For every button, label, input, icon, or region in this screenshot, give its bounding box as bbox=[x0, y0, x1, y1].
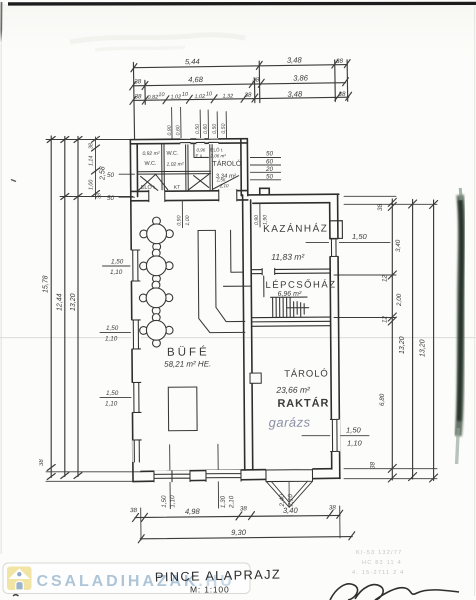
svg-text:38: 38 bbox=[39, 459, 45, 466]
left dim line 12,44 bbox=[64, 137, 66, 477]
svg-text:TÁROLÓ: TÁROLÓ bbox=[284, 368, 329, 379]
svg-text:3,34 m²: 3,34 m² bbox=[216, 174, 237, 180]
wall openings (white) bbox=[129, 137, 340, 483]
svg-text:4,68: 4,68 bbox=[188, 75, 204, 84]
svg-text:12: 12 bbox=[382, 315, 389, 323]
garage opening bbox=[266, 468, 313, 482]
left margin speck bbox=[11, 180, 16, 182]
svg-text:12: 12 bbox=[382, 274, 389, 282]
svg-text:1,10: 1,10 bbox=[110, 269, 123, 276]
svg-text:1,50: 1,50 bbox=[346, 426, 362, 435]
svg-text:38: 38 bbox=[338, 91, 346, 98]
svg-text:1,02 m²: 1,02 m² bbox=[167, 162, 184, 168]
svg-text:38: 38 bbox=[370, 461, 377, 469]
dim ticks row2 bbox=[130, 78, 349, 90]
svg-text:6,96 m²: 6,96 m² bbox=[278, 291, 302, 298]
door gaps block bottom wall bbox=[149, 190, 165, 202]
svg-text:38: 38 bbox=[240, 505, 248, 512]
bottom 9,30 ticks bbox=[138, 532, 355, 543]
svg-text:3,48: 3,48 bbox=[287, 55, 303, 64]
bottom dim ticks bbox=[132, 510, 342, 521]
svg-text:0,90: 0,90 bbox=[167, 125, 173, 135]
table 1 bbox=[140, 217, 174, 251]
left dim ticks bbox=[47, 136, 99, 479]
dim labels row1 bbox=[185, 55, 344, 67]
svg-text:1,50: 1,50 bbox=[161, 495, 168, 508]
svg-text:1,14: 1,14 bbox=[89, 156, 95, 166]
stamp text bottom right bbox=[352, 550, 404, 576]
faint pencil smudges top bbox=[70, 35, 245, 42]
logo house window dot bbox=[17, 572, 21, 576]
svg-text:38: 38 bbox=[134, 78, 142, 85]
svg-text:13,20: 13,20 bbox=[70, 293, 77, 311]
pillar on middle wall bbox=[250, 373, 261, 383]
svg-text:RAKTÁR: RAKTÁR bbox=[277, 396, 329, 409]
svg-text:1,00: 1,00 bbox=[89, 180, 95, 190]
svg-text:0,50: 0,50 bbox=[221, 123, 227, 133]
svg-text:ELŐ t.: ELŐ t. bbox=[210, 146, 223, 152]
svg-text:50: 50 bbox=[266, 173, 274, 180]
vent dim verticals bbox=[172, 107, 227, 139]
dim ticks row3 bbox=[130, 92, 352, 104]
right dim ticks bbox=[388, 198, 437, 482]
svg-text:KI-53 132/77: KI-53 132/77 bbox=[356, 550, 402, 556]
garage opening edges bbox=[266, 469, 313, 482]
left page edge faint bbox=[1, 44, 2, 554]
block bottom wall bbox=[131, 191, 248, 201]
svg-text:3,40: 3,40 bbox=[395, 239, 402, 252]
svg-text:0,50: 0,50 bbox=[212, 124, 218, 134]
svg-text:1,32: 1,32 bbox=[222, 94, 233, 100]
bottom rotated labels bbox=[161, 494, 295, 510]
svg-text:1,02: 1,02 bbox=[194, 94, 205, 100]
dim labels row3 bbox=[134, 89, 346, 101]
bottom dim row bbox=[135, 515, 340, 517]
door jambs bbox=[149, 189, 275, 275]
svg-text:0,82: 0,82 bbox=[147, 95, 158, 101]
left outer wall bbox=[130, 140, 133, 482]
window thin lines bbox=[130, 138, 339, 483]
svg-text:3,40: 3,40 bbox=[283, 506, 299, 515]
svg-text:15,78: 15,78 bbox=[43, 275, 50, 293]
corridor nook lines bbox=[231, 230, 244, 272]
bottom outer wall bbox=[133, 469, 340, 482]
svg-text:1,50: 1,50 bbox=[352, 232, 368, 241]
kazanhaz bottom wall bbox=[251, 269, 330, 274]
logo house roof bbox=[9, 569, 31, 580]
svg-text:HC 83 11 4: HC 83 11 4 bbox=[362, 560, 402, 566]
svg-text:10: 10 bbox=[182, 92, 189, 98]
kaz door gap bbox=[262, 268, 275, 274]
svg-text:W.C.: W.C. bbox=[145, 161, 157, 167]
bottom 9,30 row bbox=[140, 537, 352, 539]
left inner wall upper bbox=[136, 144, 138, 197]
büfé counter rect bottom-left bbox=[168, 387, 197, 431]
svg-text:38: 38 bbox=[244, 92, 252, 99]
vent gap thin lines bbox=[180, 139, 218, 142]
fold crease line bbox=[0, 337, 476, 338]
svg-text:1,30: 1,30 bbox=[220, 495, 227, 508]
svg-text:TÁROLÓ: TÁROLÓ bbox=[212, 159, 241, 168]
svg-text:0,96: 0,96 bbox=[196, 147, 205, 152]
left extension lines bbox=[46, 140, 141, 482]
handwritten title PINCE ALAPRAJZ bbox=[155, 566, 282, 594]
stair rails bbox=[271, 297, 309, 308]
svg-text:6,80: 6,80 bbox=[379, 393, 386, 406]
dim extension verticals top bbox=[133, 59, 348, 139]
stair door jamb bbox=[263, 276, 265, 297]
right wall windows bbox=[329, 239, 339, 257]
svg-text:3,86: 3,86 bbox=[293, 73, 309, 82]
bottom leader verticals bbox=[170, 444, 219, 509]
logo house door bbox=[16, 581, 23, 590]
bar counter top bbox=[198, 229, 215, 231]
right rotated labels bbox=[370, 203, 404, 469]
raktar 1,50 leader bbox=[302, 435, 369, 437]
svg-text:38: 38 bbox=[134, 93, 142, 100]
window dim labels left bbox=[105, 259, 124, 408]
svg-text:38: 38 bbox=[329, 504, 337, 511]
svg-text:4,98: 4,98 bbox=[185, 507, 201, 516]
left wall windows bbox=[130, 250, 140, 281]
right dim line segments bbox=[391, 199, 393, 480]
table 2 bbox=[140, 249, 174, 283]
bottom-left small mark bbox=[13, 595, 19, 596]
svg-text:23,66 m²: 23,66 m² bbox=[275, 385, 311, 395]
svg-text:11,83 m²: 11,83 m² bbox=[271, 252, 305, 262]
svg-text:38: 38 bbox=[130, 507, 138, 514]
block partitions vertical bbox=[162, 143, 213, 191]
svg-text:38: 38 bbox=[252, 77, 260, 84]
table 4 bbox=[140, 314, 174, 348]
right extension lines bbox=[334, 196, 437, 478]
svg-text:38: 38 bbox=[89, 143, 95, 149]
svg-text:W.C.: W.C. bbox=[166, 151, 178, 157]
door swing diagonals block bbox=[139, 174, 239, 191]
svg-text:10: 10 bbox=[206, 91, 213, 97]
taroló small room left wall pair bbox=[241, 139, 248, 196]
eü cubicle bbox=[194, 143, 209, 157]
garage door V marks bbox=[267, 481, 313, 507]
svg-text:2,06 m²: 2,06 m² bbox=[209, 153, 226, 158]
vent gaps top wall bbox=[180, 138, 190, 144]
svg-text:13,20: 13,20 bbox=[399, 336, 406, 354]
left rotated dim labels bbox=[39, 166, 107, 466]
chimney protrusion bbox=[330, 221, 343, 239]
right dim line 13,20 inner bbox=[412, 200, 414, 480]
svg-text:3,48: 3,48 bbox=[287, 89, 303, 98]
svg-text:10: 10 bbox=[158, 92, 165, 98]
svg-text:58,21 m² HE.: 58,21 m² HE. bbox=[164, 359, 211, 368]
left dim line 15,78 bbox=[50, 136, 52, 478]
svg-text:0,92 m²: 0,92 m² bbox=[142, 151, 159, 157]
svg-text:2,00: 2,00 bbox=[396, 293, 403, 307]
bottom row verticals bbox=[141, 506, 340, 540]
svg-text:0,60: 0,60 bbox=[175, 125, 181, 135]
svg-text:38: 38 bbox=[97, 193, 103, 199]
svg-text:50: 50 bbox=[107, 195, 115, 202]
svg-text:2,10: 2,10 bbox=[228, 495, 235, 509]
scan top border bbox=[8, 2, 476, 6]
svg-text:E.ü: E.ü bbox=[195, 153, 202, 158]
interior details bbox=[138, 143, 270, 431]
door dim leaders below block bbox=[182, 200, 260, 228]
watermark box bbox=[3, 563, 250, 594]
bottom wall windows bbox=[154, 470, 190, 482]
svg-text:1,50: 1,50 bbox=[111, 259, 124, 266]
svg-text:1,10: 1,10 bbox=[105, 336, 118, 343]
vent dim rotated labels bbox=[167, 123, 227, 135]
top-left block outer top wall bbox=[130, 139, 247, 144]
svg-text:1,10: 1,10 bbox=[347, 439, 363, 448]
svg-text:0,90: 0,90 bbox=[254, 215, 260, 225]
stairs bbox=[271, 297, 309, 317]
svg-text:ELŐ t.: ELŐ t. bbox=[141, 184, 157, 191]
svg-text:1,00: 1,00 bbox=[185, 215, 191, 225]
wc bottom partition bbox=[137, 171, 210, 174]
svg-text:1,50: 1,50 bbox=[106, 325, 119, 332]
svg-text:0,90: 0,90 bbox=[176, 215, 182, 225]
svg-text:M: 1:100: M: 1:100 bbox=[190, 585, 229, 595]
bar counter inner bbox=[215, 230, 244, 322]
svg-text:2,10: 2,10 bbox=[219, 183, 229, 188]
table 3 bbox=[139, 281, 173, 315]
svg-text:9,30: 9,30 bbox=[231, 528, 247, 537]
half wall stub bbox=[223, 285, 251, 287]
svg-text:LÉPCSŐHÁZ: LÉPCSŐHÁZ bbox=[265, 279, 336, 291]
svg-text:0,60: 0,60 bbox=[203, 124, 209, 134]
step notch bbox=[260, 188, 270, 195]
svg-text:1,02: 1,02 bbox=[170, 94, 181, 100]
logo icon yellow square bbox=[7, 567, 32, 591]
right windows frame bbox=[330, 239, 338, 257]
dim line row2 bbox=[133, 83, 346, 86]
kazanhaz 1,50 leader bbox=[306, 242, 390, 244]
right dim line 13,20 outer bbox=[433, 200, 435, 481]
signature scribble bbox=[330, 584, 459, 600]
bottom windows frame bbox=[154, 471, 190, 482]
middle wall pair bbox=[243, 195, 253, 470]
svg-text:garázs: garázs bbox=[269, 415, 311, 430]
svg-text:5,44: 5,44 bbox=[185, 57, 200, 66]
svg-text:38: 38 bbox=[336, 58, 344, 65]
svg-text:0,50: 0,50 bbox=[195, 124, 201, 134]
dim labels row2 bbox=[134, 73, 309, 85]
right outer wall bbox=[330, 194, 340, 478]
dim ticks row1 bbox=[131, 60, 351, 72]
svg-text:50: 50 bbox=[107, 172, 115, 179]
dim line row3 bbox=[133, 97, 349, 100]
tables with chairs bbox=[139, 217, 174, 347]
stair steps bbox=[273, 298, 305, 318]
svg-text:38: 38 bbox=[377, 203, 384, 211]
svg-text:1,50: 1,50 bbox=[106, 390, 119, 397]
bar counter outer bbox=[198, 230, 245, 333]
svg-text:BÜFÉ: BÜFÉ bbox=[167, 345, 210, 358]
taroló side leaders 50 60 20 50 bbox=[250, 158, 281, 180]
dim line row1 bbox=[134, 65, 347, 68]
svg-text:13,20: 13,20 bbox=[420, 339, 427, 357]
svg-text:4. 15-2711 2 4: 4. 15-2711 2 4 bbox=[352, 570, 404, 576]
svg-text:12,44: 12,44 bbox=[57, 293, 64, 311]
window leader 50 lines bbox=[119, 174, 135, 197]
right wing top wall bbox=[248, 194, 339, 203]
window leader lines left bbox=[100, 266, 173, 398]
svg-text:20: 20 bbox=[265, 166, 274, 173]
left dim line 13,20 bbox=[77, 137, 79, 477]
svg-text:KT: KT bbox=[174, 185, 180, 191]
lepcsohaz bottom wall bbox=[252, 317, 331, 326]
svg-text:1,10: 1,10 bbox=[169, 495, 176, 508]
svg-text:2,58: 2,58 bbox=[100, 166, 107, 181]
left sub dim line bbox=[95, 137, 97, 199]
svg-text:1,10: 1,10 bbox=[105, 401, 118, 408]
right page edge faint bbox=[474, 6, 475, 596]
svg-text:KAZÁNHÁZ: KAZÁNHÁZ bbox=[263, 221, 328, 235]
green smudge right edge bbox=[457, 188, 462, 464]
svg-text:PINCE ALAPRAJZ: PINCE ALAPRAJZ bbox=[155, 566, 282, 584]
svg-text:50: 50 bbox=[266, 151, 274, 158]
svg-text:60: 60 bbox=[266, 159, 274, 166]
scan left border bbox=[0, 2, 2, 44]
left windows frame bbox=[131, 250, 140, 281]
